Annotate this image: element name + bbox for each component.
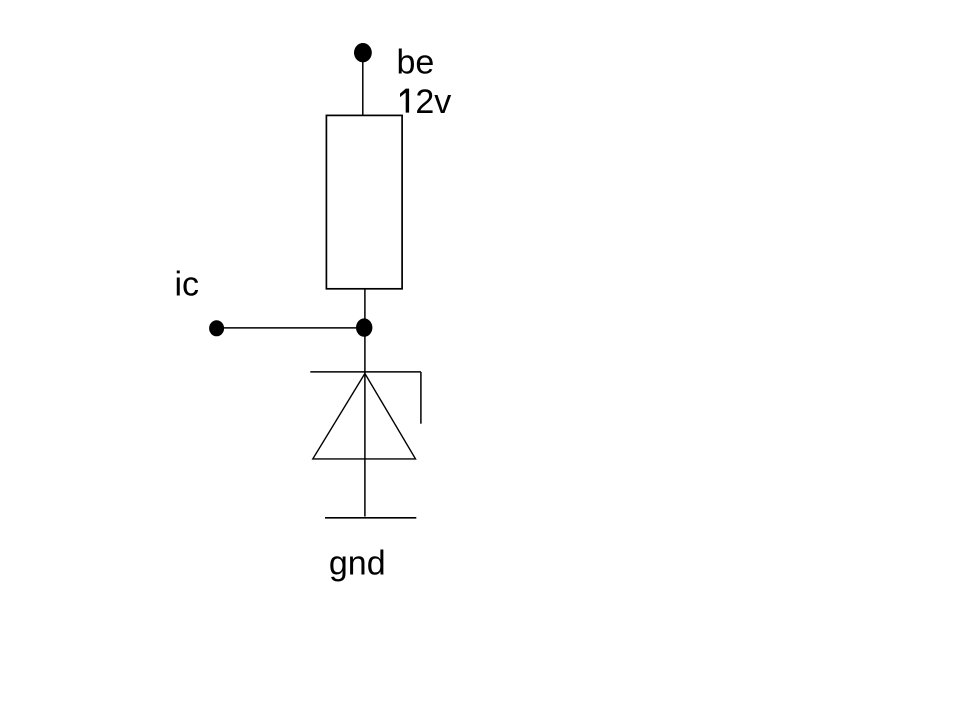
svg-text:2v: 2v [415, 83, 451, 121]
node ic (left terminal dot) [209, 320, 224, 336]
svg-text:gnd: gnd [329, 545, 386, 583]
diode D1 cathode bar [310, 371, 421, 373]
ground bar [325, 517, 416, 519]
wire (top dot to resistor) [362, 61, 364, 115]
label 12v digit 1 [400, 89, 409, 113]
resistor R1 (box) [326, 115, 402, 288]
diode D1 anode triangle [313, 374, 416, 459]
node junction (resistor/diode/ic tap) [356, 318, 372, 336]
diode D1 zener tail [420, 372, 422, 424]
svg-text:ic: ic [175, 266, 200, 304]
svg-text:be: be [397, 44, 435, 82]
wire (ic tap horizontal) [217, 327, 364, 329]
wire (resistor bottom through junction to ground) [364, 289, 366, 517]
node be (top supply terminal dot) [354, 43, 372, 62]
